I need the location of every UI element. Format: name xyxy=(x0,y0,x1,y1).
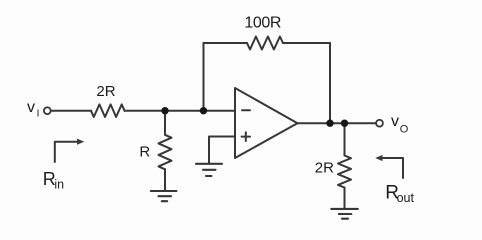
input terminal circle vI xyxy=(44,107,51,114)
svg-text:R: R xyxy=(139,144,150,161)
svg-text:v: v xyxy=(391,113,399,130)
wire op-amp output to terminal vO xyxy=(298,122,376,124)
svg-text:v: v xyxy=(27,99,35,116)
resistor 2R (load, to ground) xyxy=(338,156,351,188)
resistor 2R (series input) xyxy=(91,104,125,117)
svg-text:2R: 2R xyxy=(96,83,115,100)
wire input terminal to resistor 2R xyxy=(51,110,91,112)
junction node C (feedback to output) xyxy=(326,120,333,127)
wire node A down to resistor R xyxy=(164,111,166,135)
arrow Rin xyxy=(55,142,79,162)
output terminal circle vO xyxy=(376,120,383,127)
op-amp plus sign xyxy=(242,132,250,141)
junction node A (2R / R / wire) xyxy=(161,107,168,114)
wire feedback left vertical xyxy=(203,43,205,111)
ground (below resistor R) xyxy=(151,191,177,201)
svg-text:2R: 2R xyxy=(315,159,334,176)
op-amp U1 triangle xyxy=(235,88,298,158)
resistor R (shunt to ground) xyxy=(159,135,172,170)
wire resistor 2R to op-amp inverting input xyxy=(125,110,236,112)
svg-text:100R: 100R xyxy=(244,15,281,32)
wire output node down to resistor 2R load xyxy=(344,123,346,155)
svg-text:out: out xyxy=(397,191,415,205)
junction node B (feedback tap at inverting input) xyxy=(200,107,207,114)
op-amp minus sign xyxy=(242,109,250,111)
ground (op-amp + input) xyxy=(196,164,222,176)
arrow Rout xyxy=(382,158,404,178)
wire feedback top left segment xyxy=(204,42,248,44)
wire resistor 2R load to ground xyxy=(344,188,346,208)
svg-text:I: I xyxy=(37,109,40,120)
wire feedback right vertical to output node xyxy=(329,43,331,123)
wire feedback top right segment xyxy=(283,42,330,44)
resistor 100R (feedback) xyxy=(247,37,283,50)
wire resistor R to ground xyxy=(164,169,166,190)
junction node D (output / load) xyxy=(341,120,348,127)
svg-text:O: O xyxy=(400,123,409,135)
wire op-amp + input to ground xyxy=(209,137,235,164)
arrowhead Rin xyxy=(77,139,84,145)
ground (below load 2R) xyxy=(331,209,358,219)
svg-text:in: in xyxy=(54,177,64,191)
arrowhead Rout xyxy=(375,155,382,161)
